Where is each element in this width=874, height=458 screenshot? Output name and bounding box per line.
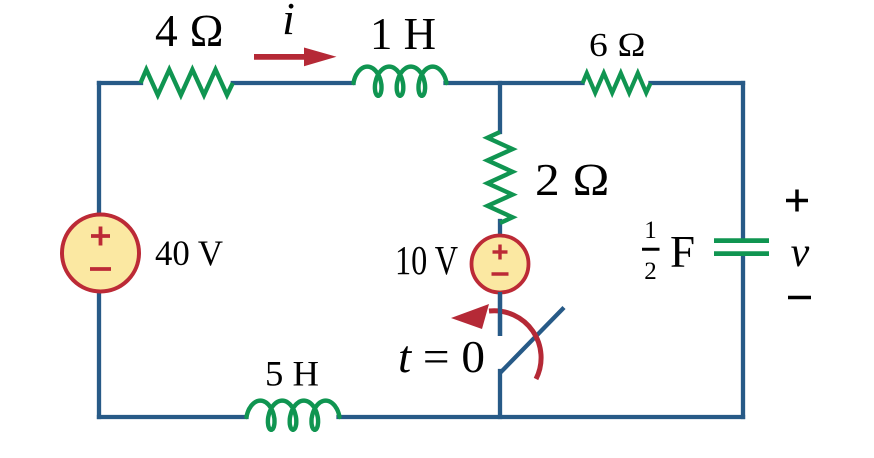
voltage source 40V [62, 215, 139, 292]
switch opening arrow (red arc) [489, 311, 541, 379]
current arrow i [254, 48, 337, 67]
inductor 1H [354, 67, 447, 96]
wire between 6-ohm and right corner [651, 81, 744, 85]
wire right side upper [741, 83, 745, 239]
svg-text:4 Ω: 4 Ω [155, 5, 224, 56]
wire stub below 10V source (switch upper contact) [498, 292, 502, 336]
wire between 2-ohm and 10V source [498, 221, 502, 237]
wire middle branch bottom [498, 371, 502, 417]
svg-text:1: 1 [644, 217, 657, 244]
wire bottom-left segment [99, 415, 247, 419]
resistor 2-ohm [488, 132, 513, 223]
wire bottom-right segment [339, 415, 744, 419]
voltage source 10V [472, 236, 529, 293]
svg-text:5 H: 5 H [265, 354, 319, 394]
capacitor 1/2 F plates [714, 238, 769, 243]
wire stub below 10V source (redrawn over arc) [498, 292, 502, 336]
svg-text:10 V: 10 V [395, 237, 458, 283]
resistor 6-ohm [583, 73, 651, 93]
svg-text:1 H: 1 H [370, 8, 436, 59]
inductor 5H [247, 401, 340, 430]
svg-text:i: i [282, 0, 295, 44]
svg-text:t = 0: t = 0 [398, 331, 485, 382]
svg-text:F: F [670, 227, 695, 277]
svg-text:6 Ω: 6 Ω [589, 27, 646, 64]
svg-text:v: v [791, 230, 810, 276]
wire middle branch top [498, 83, 502, 132]
wire left side upper [97, 83, 101, 215]
switch blade (open, t=0) [501, 309, 563, 372]
label - (capacitor polarity) [788, 296, 811, 299]
wire right side lower [741, 255, 745, 417]
svg-text:2 Ω: 2 Ω [535, 154, 610, 205]
svg-text:40 V: 40 V [155, 233, 223, 273]
wire top-left segment [99, 81, 141, 85]
wire between 1H and 6-ohm (node at top of middle branch) [446, 81, 583, 85]
wire left side lower [97, 291, 101, 417]
svg-text:2: 2 [644, 258, 657, 285]
label + (capacitor polarity) [786, 199, 808, 203]
wire between 4-ohm and 1H [233, 81, 354, 85]
resistor 4-ohm [141, 70, 233, 95]
